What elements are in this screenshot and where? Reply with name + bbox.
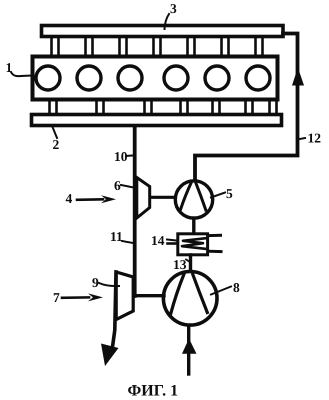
- intercooler 14 coil: [182, 238, 206, 249]
- intake rail 3 (top bar): [42, 26, 284, 37]
- pipe 13: intercooler to compressor 8: [189, 255, 192, 272]
- pipe blower 5 to intercooler: [192, 218, 195, 234]
- svg-text:7: 7: [53, 290, 60, 305]
- cylinder 5: [205, 66, 229, 90]
- block-to-rail stubs (bottom row): [50, 101, 277, 114]
- svg-text:ФИГ. 1: ФИГ. 1: [128, 383, 179, 400]
- leader tick for 9: [99, 283, 119, 286]
- svg-text:4: 4: [66, 191, 73, 206]
- leader tick for 1: [11, 72, 31, 76]
- leader tick for 3: [165, 14, 170, 29]
- compressor 8 vanes: [171, 275, 184, 314]
- cylinder 4: [164, 66, 188, 90]
- power turbine 9 (trapezoid): [116, 272, 133, 320]
- exhaust rail 2 (bottom bar): [32, 115, 282, 126]
- intercooler coolant stub right-top: [208, 234, 221, 237]
- svg-text:2: 2: [53, 137, 60, 152]
- svg-text:13: 13: [173, 257, 187, 272]
- intercooler coolant stub left: [168, 242, 178, 245]
- cylinder 1: [36, 66, 60, 90]
- leader tick for 11: [122, 241, 133, 243]
- flow arrow 7: [62, 296, 89, 299]
- leader tick for 10: [126, 155, 133, 158]
- intake line into compressor 8: [187, 326, 190, 374]
- svg-text:3: 3: [170, 1, 177, 16]
- intercooler 14 (box): [178, 234, 208, 255]
- exhaust arrowhead (down): [101, 344, 119, 367]
- shaft 9-8: [134, 294, 164, 297]
- flow arrow 4: [77, 198, 103, 201]
- blower 5 (circle with vanes): [175, 181, 212, 218]
- leader tick for 13: [186, 260, 190, 263]
- shaft 6-5: [151, 196, 175, 199]
- rail-to-block stubs (top row): [52, 39, 263, 57]
- cylinder 2: [77, 66, 101, 90]
- leader tick for 14: [167, 240, 177, 241]
- svg-text:12: 12: [308, 131, 322, 146]
- svg-text:8: 8: [233, 280, 240, 295]
- compressor 8 (circle with vanes): [163, 272, 217, 326]
- intake arrowhead (up): [182, 339, 197, 354]
- leader tick for 2: [53, 127, 58, 138]
- cylinder 3: [118, 66, 142, 90]
- pipe 12: rail 3 to elbow, down right side: [195, 34, 298, 180]
- arrowhead on pipe 12 (up): [292, 68, 304, 86]
- engine block 1: [33, 57, 278, 100]
- pipe 10/11: exhaust downcomer: [133, 126, 137, 296]
- leader tick for 8: [211, 287, 231, 295]
- blower 5 vanes: [181, 182, 192, 210]
- turbocharger turbine 6 (trapezoid on pipe): [137, 178, 150, 219]
- intercooler coolant stub right-bottom: [208, 250, 221, 253]
- exhaust outlet line from turbine 9: [113, 272, 117, 347]
- leader tick for 5: [211, 193, 225, 198]
- cylinder 6: [246, 66, 270, 90]
- svg-text:14: 14: [151, 233, 165, 248]
- svg-text:5: 5: [226, 186, 233, 201]
- leader tick for 6: [121, 185, 134, 188]
- svg-text:9: 9: [92, 275, 99, 290]
- leader tick for 12: [297, 138, 305, 140]
